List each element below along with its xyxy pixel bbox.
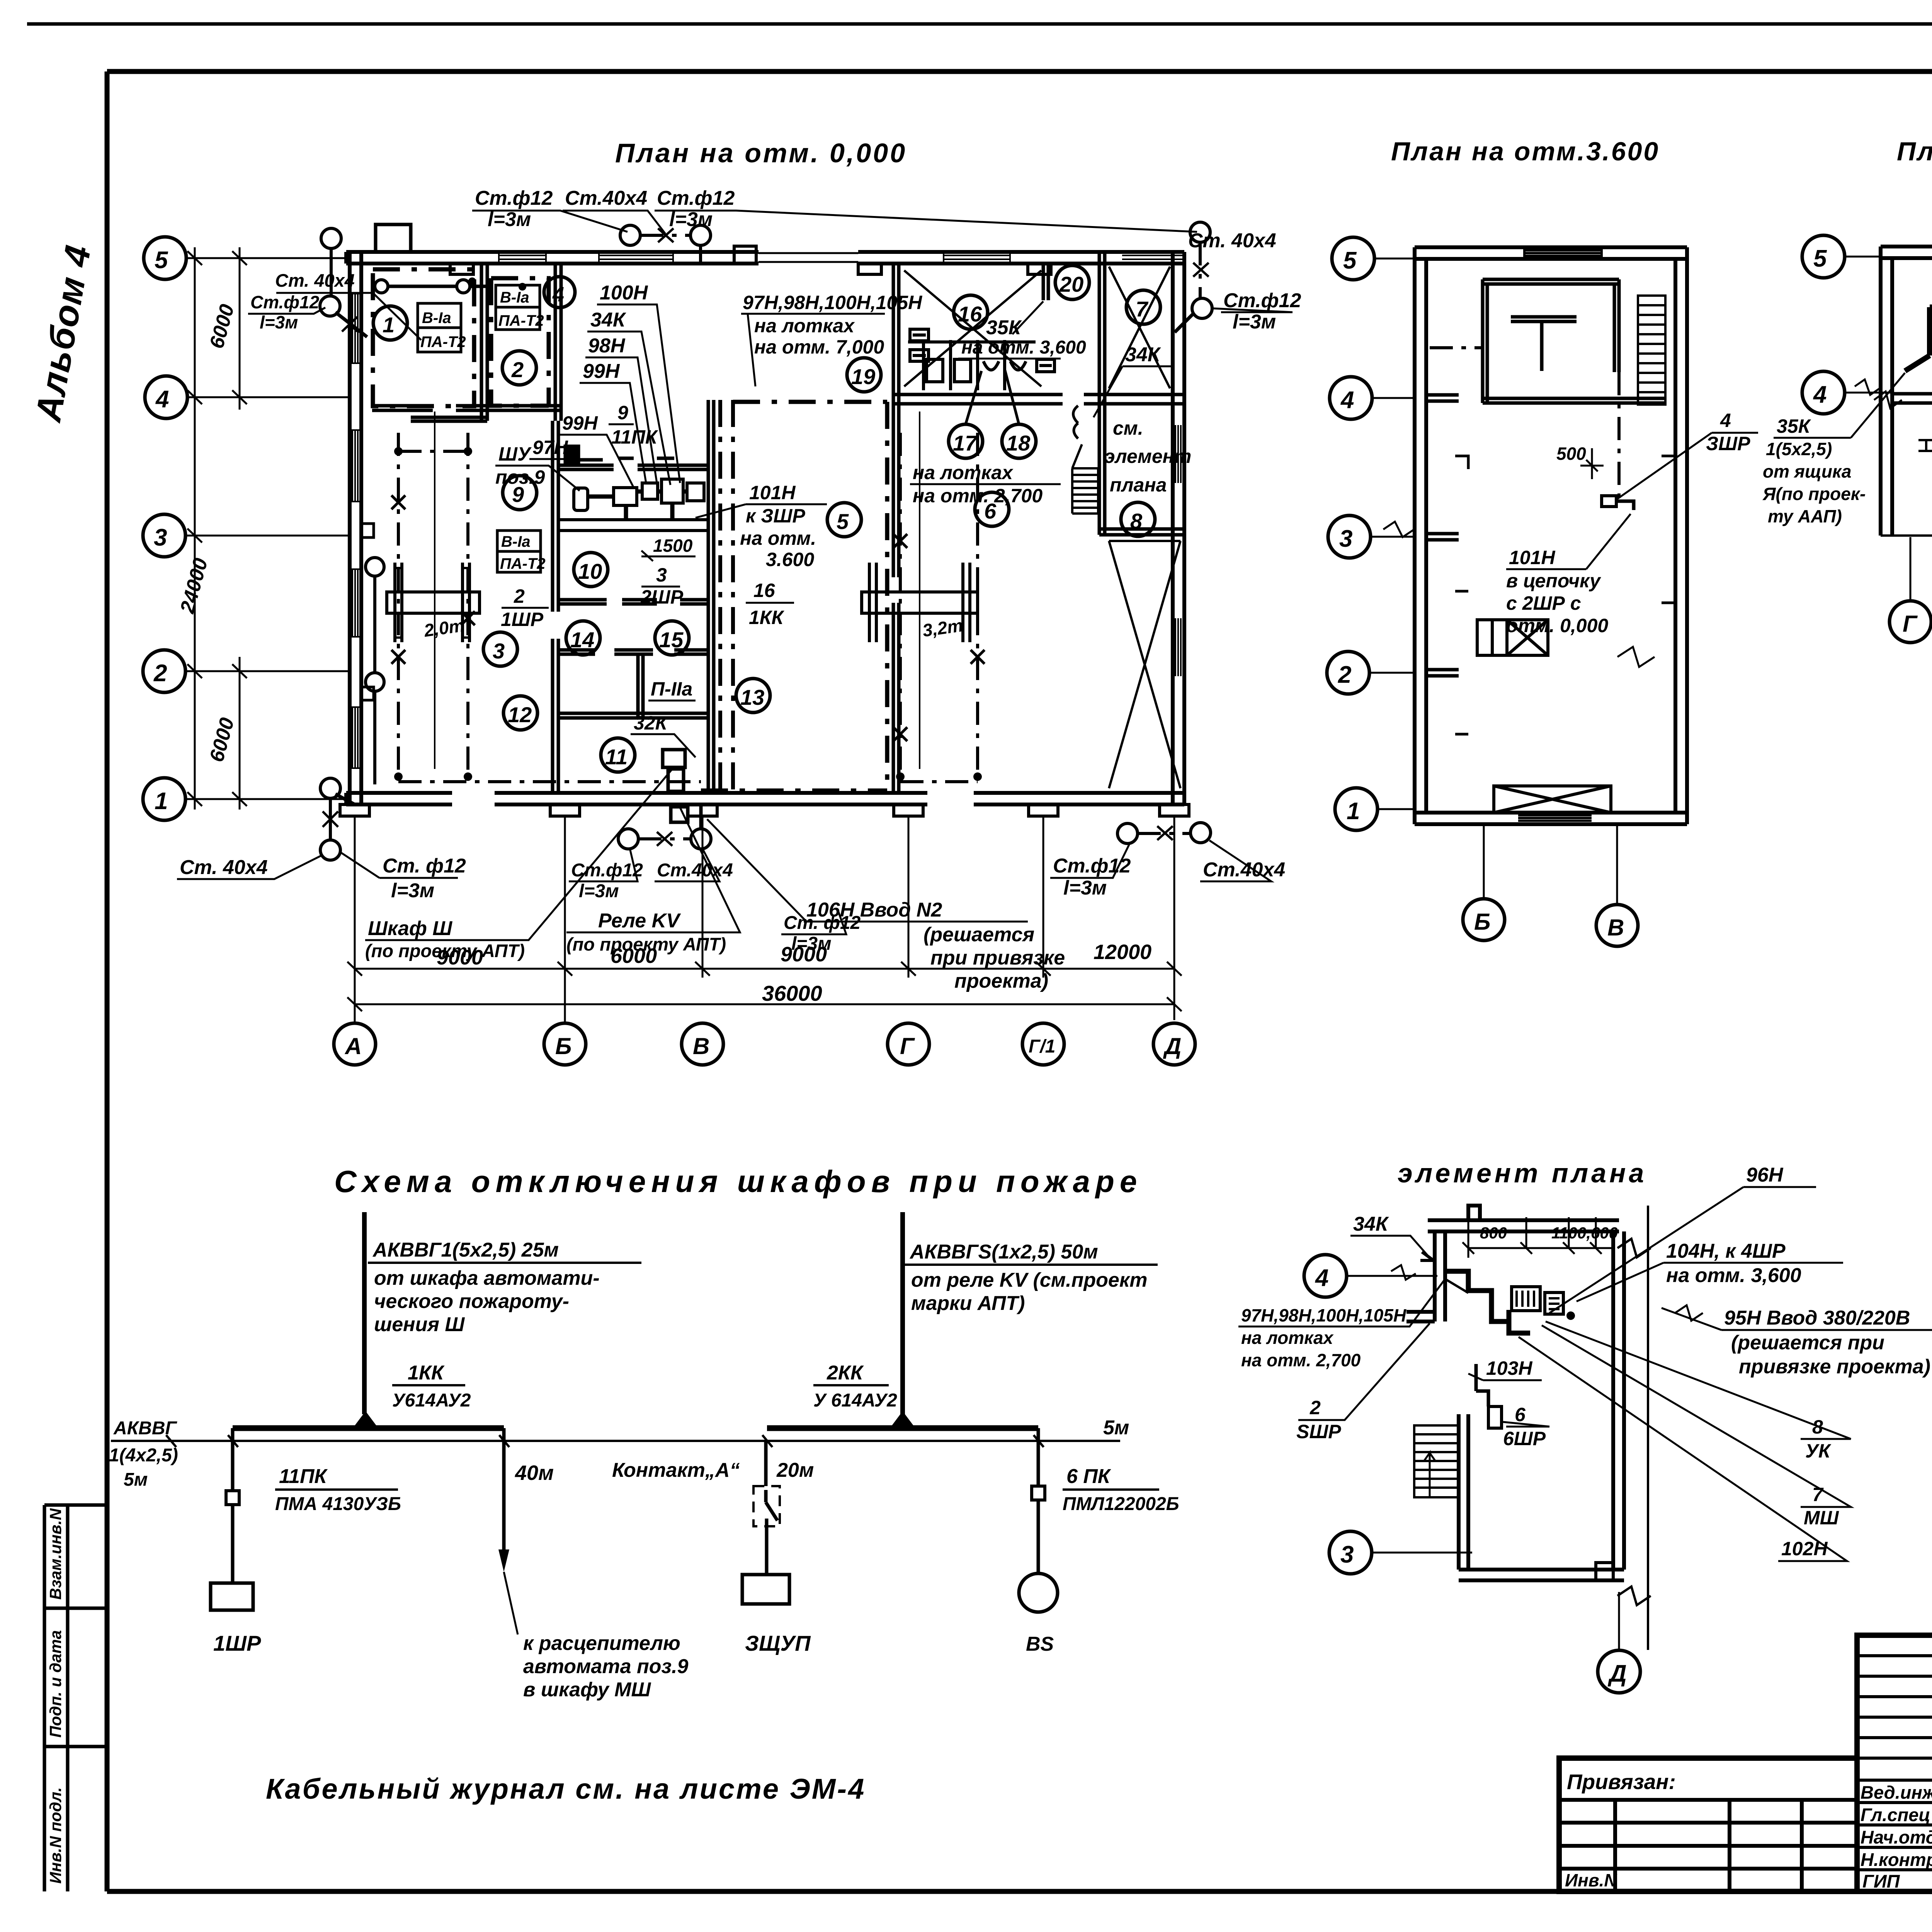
svg-text:5: 5 bbox=[1343, 247, 1357, 274]
svg-text:У614АУ2: У614АУ2 bbox=[392, 1390, 471, 1411]
box 1ШР bbox=[211, 1583, 253, 1610]
circle 17 bbox=[949, 424, 983, 458]
circle 20 bbox=[1055, 265, 1089, 299]
svg-text:АКВВГ1(5х2,5) 25м: АКВВГ1(5х2,5) 25м bbox=[372, 1239, 559, 1261]
svg-text:Контакт„А“: Контакт„А“ bbox=[612, 1459, 740, 1481]
svg-text:40м: 40м bbox=[515, 1461, 554, 1485]
svg-text:П-IIа: П-IIа bbox=[651, 678, 692, 700]
plan2 axis circle 2 bbox=[1327, 651, 1369, 694]
svg-text:20: 20 bbox=[1059, 272, 1083, 296]
svg-text:l=3м: l=3м bbox=[260, 312, 298, 332]
svg-text:Д: Д bbox=[1163, 1033, 1181, 1059]
svg-text:1: 1 bbox=[1347, 798, 1360, 825]
svg-text:ШУ: ШУ bbox=[498, 443, 532, 465]
svg-text:BS: BS bbox=[1026, 1633, 1054, 1655]
plan2 bottom window bbox=[1518, 815, 1592, 821]
svg-text:ПМА 4130УЗБ: ПМА 4130УЗБ bbox=[275, 1494, 401, 1514]
circle 19 bbox=[847, 358, 881, 392]
svg-text:автомата поз.9: автомата поз.9 bbox=[523, 1655, 688, 1678]
interior walls bbox=[372, 252, 1184, 793]
svg-text:Гл.спец: Гл.спец bbox=[1861, 1804, 1930, 1825]
sheet trim line top bbox=[27, 22, 1932, 26]
circle 8 bbox=[1121, 502, 1155, 536]
wall-mounted devices row on wall 9|10 bbox=[565, 446, 674, 462]
svg-text:35К: 35К bbox=[986, 316, 1022, 339]
svg-text:95Н Ввод 380/220В: 95Н Ввод 380/220В bbox=[1724, 1307, 1910, 1329]
element dim line bbox=[1463, 1213, 1613, 1258]
svg-text:Ст. 40х4: Ст. 40х4 bbox=[1188, 230, 1276, 252]
wall 10|14,15 bbox=[558, 600, 708, 604]
svg-text:l=3м: l=3м bbox=[1233, 311, 1276, 333]
bottom device boxes (ШУ/реле) bbox=[663, 750, 688, 822]
svg-text:3: 3 bbox=[154, 524, 167, 551]
circle 6 bbox=[975, 492, 1009, 526]
top wall pilasters bbox=[450, 246, 1051, 274]
svg-text:Г: Г bbox=[1903, 611, 1918, 637]
svg-text:Д: Д bbox=[1607, 1660, 1627, 1687]
svg-text:3: 3 bbox=[493, 639, 505, 663]
circle 3 bbox=[483, 632, 517, 666]
plan3 axis circle 5 bbox=[1802, 235, 1845, 278]
svg-text:Г: Г bbox=[900, 1033, 915, 1059]
svg-text:13: 13 bbox=[740, 685, 764, 709]
класс box room3 bbox=[497, 531, 541, 572]
svg-text:1ШР: 1ШР bbox=[501, 609, 544, 630]
svg-text:Н.контр.: Н.контр. bbox=[1861, 1849, 1932, 1870]
crane runway axis room6 bbox=[919, 412, 920, 769]
plan3 bottom axis circles bbox=[1889, 601, 1931, 643]
svg-text:на отм.: на отм. bbox=[740, 527, 816, 549]
plan2 bottom block bbox=[1494, 786, 1611, 813]
svg-text:15: 15 bbox=[659, 628, 684, 652]
svg-text:ПА-Т2: ПА-Т2 bbox=[420, 333, 466, 350]
svg-text:Ст. 40х4: Ст. 40х4 bbox=[180, 856, 268, 879]
plan3 bottom break line bbox=[1881, 522, 1932, 548]
ground electrodes top-right bbox=[1190, 222, 1210, 242]
svg-text:Я(по проек-: Я(по проек- bbox=[1762, 484, 1866, 504]
svg-text:17: 17 bbox=[953, 431, 978, 455]
privyazan box bbox=[1559, 1758, 1857, 1891]
room1 dashed boundary bbox=[373, 269, 887, 791]
svg-text:1КК: 1КК bbox=[408, 1362, 445, 1384]
bell BS bbox=[1019, 1573, 1058, 1612]
svg-text:2: 2 bbox=[153, 660, 167, 687]
svg-text:на лотках: на лотках bbox=[913, 462, 1014, 483]
bus 2 bbox=[767, 1425, 1038, 1431]
svg-text:103Н: 103Н bbox=[1486, 1357, 1532, 1379]
room number circle 1 bbox=[373, 306, 407, 340]
element stair bbox=[1414, 1425, 1458, 1497]
svg-text:5: 5 bbox=[155, 247, 168, 274]
axis circle 3 bbox=[143, 514, 185, 557]
plan3 dotted band bbox=[1918, 440, 1932, 451]
svg-text:В-Iа: В-Iа bbox=[422, 310, 451, 327]
bottom-left auxiliary column table bbox=[44, 1505, 107, 1891]
svg-text:см.: см. bbox=[1113, 417, 1143, 439]
svg-text:на отм. 7,000: на отм. 7,000 bbox=[754, 336, 884, 358]
svg-text:МШ: МШ bbox=[1804, 1507, 1839, 1529]
svg-text:на отм. 2,700: на отм. 2,700 bbox=[913, 485, 1043, 507]
svg-text:102Н: 102Н bbox=[1781, 1538, 1828, 1560]
svg-text:УК: УК bbox=[1805, 1440, 1832, 1462]
svg-text:ту ААП): ту ААП) bbox=[1768, 506, 1842, 526]
plan2 axis circle 5 bbox=[1332, 237, 1374, 280]
svg-text:Ст.40х4: Ст.40х4 bbox=[565, 187, 647, 209]
svg-text:План на отм.3.600: План на отм.3.600 bbox=[1391, 137, 1660, 166]
bottom wall pilasters bbox=[340, 804, 1189, 816]
circle 11 bbox=[601, 738, 635, 772]
crossing ticks bbox=[166, 1435, 1044, 1447]
svg-text:SШР: SШР bbox=[1296, 1421, 1341, 1442]
ground electrodes bottom-left bbox=[320, 778, 340, 798]
svg-text:В-Iа: В-Iа bbox=[501, 533, 531, 550]
bottom dimension extension lines bbox=[347, 816, 1182, 1023]
vent bump on top wall bbox=[376, 224, 411, 252]
plan2 device bbox=[1602, 496, 1616, 507]
svg-text:l=3м: l=3м bbox=[579, 881, 619, 901]
element lower box bbox=[1596, 1563, 1613, 1580]
svg-text:АКВВГS(1х2,5) 50м: АКВВГS(1х2,5) 50м bbox=[909, 1241, 1098, 1263]
plan2 axis circle 1 bbox=[1335, 788, 1378, 830]
svg-text:5: 5 bbox=[1813, 245, 1827, 272]
svg-text:В-Iа: В-Iа bbox=[500, 289, 529, 306]
circle 18 bbox=[1002, 424, 1036, 458]
svg-text:Взам.инв.N: Взам.инв.N bbox=[46, 1508, 65, 1600]
svg-text:У 614АУ2: У 614АУ2 bbox=[813, 1390, 897, 1411]
svg-text:96Н: 96Н bbox=[1746, 1164, 1784, 1186]
svg-text:1: 1 bbox=[155, 788, 168, 815]
svg-text:100Н: 100Н bbox=[600, 282, 648, 304]
svg-text:шения Ш: шения Ш bbox=[374, 1313, 465, 1336]
svg-text:6 ПК: 6 ПК bbox=[1066, 1465, 1111, 1488]
svg-text:2ШР: 2ШР bbox=[640, 586, 684, 608]
svg-text:16: 16 bbox=[753, 580, 776, 601]
svg-text:Привязан:: Привязан: bbox=[1567, 1770, 1676, 1794]
svg-text:99Н: 99Н bbox=[562, 412, 598, 434]
plan2 vent room walls bbox=[1483, 279, 1665, 403]
svg-text:ГИП: ГИП bbox=[1862, 1871, 1900, 1891]
element axis circle Д bbox=[1598, 1650, 1640, 1693]
svg-text:Инв.N: Инв.N bbox=[1565, 1870, 1617, 1890]
drop with arrow to МШ bbox=[502, 1428, 506, 1549]
axis leader lines bbox=[185, 247, 350, 810]
svg-text:1: 1 bbox=[383, 313, 395, 337]
svg-text:на лотках: на лотках bbox=[754, 315, 855, 337]
wall 14,15|12,13 bbox=[558, 650, 708, 654]
wall 12,13|11 bbox=[558, 713, 708, 718]
axis circle 2 bbox=[143, 650, 185, 692]
svg-text:проекта): проекта) bbox=[954, 970, 1048, 992]
svg-text:План на отм. 3.600: План на отм. 3.600 bbox=[1897, 137, 1932, 166]
plan3 cable thick polyline bbox=[1905, 274, 1932, 371]
wall room2|4area bbox=[555, 264, 561, 421]
plan2 exterior walls bbox=[1415, 247, 1687, 824]
sanitary stalls room 19 bbox=[908, 329, 1054, 390]
svg-text:Ст. 40х4: Ст. 40х4 bbox=[275, 270, 355, 291]
distribution line bbox=[111, 1440, 1120, 1442]
svg-text:5м: 5м bbox=[1103, 1417, 1129, 1439]
svg-text:11: 11 bbox=[605, 745, 628, 769]
svg-text:ческого пожароту-: ческого пожароту- bbox=[374, 1290, 569, 1313]
svg-text:101Н: 101Н bbox=[749, 482, 796, 503]
crane bridge room6 bbox=[862, 563, 978, 642]
svg-text:Кабельный журнал см. на лист: Кабельный журнал см. на листе ЭМ-4 bbox=[266, 1773, 866, 1805]
svg-text:на отм. 3,600: на отм. 3,600 bbox=[961, 337, 1086, 358]
svg-text:1500: 1500 bbox=[653, 536, 693, 556]
cluster right wall bbox=[708, 400, 714, 793]
connection triangle 2КК bbox=[890, 1411, 915, 1428]
connection triangle 1КК bbox=[353, 1411, 378, 1428]
axis circle 1 bbox=[143, 778, 185, 820]
cable trunk double dash-dot bbox=[720, 400, 733, 791]
bus 1 bbox=[233, 1425, 504, 1431]
circle 15 bbox=[655, 621, 689, 655]
element door arc bbox=[1445, 1279, 1468, 1293]
lamp circles room1 bbox=[375, 280, 388, 293]
svg-text:АКВВГ: АКВВГ bbox=[113, 1418, 178, 1439]
svg-text:Ст.ф12: Ст.ф12 bbox=[250, 292, 320, 312]
element break marks bbox=[1617, 1239, 1651, 1605]
svg-text:с 2ШР с: с 2ШР с bbox=[1506, 592, 1581, 614]
rooms19/7 bottom wall bbox=[893, 395, 1184, 404]
svg-text:А: А bbox=[344, 1033, 362, 1059]
svg-text:34К: 34К bbox=[590, 309, 626, 331]
feeder 2 from relay KV bbox=[900, 1212, 905, 1414]
drop to BS bbox=[1037, 1428, 1040, 1486]
svg-text:97Н,98Н,100Н,105Н: 97Н,98Н,100Н,105Н bbox=[1241, 1305, 1406, 1325]
svg-text:2: 2 bbox=[514, 585, 525, 607]
circle 13 bbox=[736, 679, 770, 713]
svg-text:на отм. 2,700: на отм. 2,700 bbox=[1241, 1350, 1361, 1370]
svg-text:ПА-Т2: ПА-Т2 bbox=[500, 555, 546, 572]
svg-text:2КК: 2КК bbox=[827, 1362, 864, 1384]
svg-text:3.600: 3.600 bbox=[766, 549, 814, 570]
svg-text:1(5х2,5): 1(5х2,5) bbox=[1766, 439, 1832, 459]
svg-text:Шкаф Ш: Шкаф Ш bbox=[368, 917, 452, 940]
room number circle 2 bbox=[502, 351, 536, 385]
svg-text:20м: 20м bbox=[776, 1459, 814, 1481]
svg-text:101Н: 101Н bbox=[1509, 547, 1555, 568]
svg-text:36000: 36000 bbox=[762, 981, 822, 1005]
svg-text:500: 500 bbox=[1556, 444, 1586, 464]
wall axis4 under rooms 1-2 bbox=[372, 406, 561, 410]
bottom axis circles bbox=[334, 1023, 376, 1065]
svg-text:104Н, к 4ШР: 104Н, к 4ШР bbox=[1666, 1240, 1786, 1262]
stair room8 area bbox=[1072, 444, 1098, 514]
cross bracing bottom right bbox=[1109, 541, 1180, 788]
position circle 4 bbox=[544, 277, 575, 308]
wall 12|13 bbox=[638, 654, 643, 717]
svg-text:l=3м: l=3м bbox=[669, 208, 713, 231]
svg-text:В: В bbox=[693, 1033, 709, 1059]
svg-text:от шкафа автомати-: от шкафа автомати- bbox=[374, 1267, 600, 1289]
svg-text:97Н: 97Н bbox=[532, 437, 568, 458]
circle 9 bbox=[503, 476, 537, 510]
svg-text:ПМЛ122002Б: ПМЛ122002Б bbox=[1063, 1494, 1179, 1514]
svg-text:l=3м: l=3м bbox=[1063, 877, 1107, 899]
feeder 1 from fire cabinet bbox=[362, 1212, 367, 1414]
svg-text:18: 18 bbox=[1006, 431, 1031, 455]
long wall room3|cluster bbox=[553, 421, 558, 793]
plan2 small marks bbox=[1455, 456, 1675, 734]
svg-text:Вед.инж.: Вед.инж. bbox=[1861, 1782, 1932, 1803]
plan2 left wall stubs bbox=[1426, 395, 1459, 676]
plan2 top window bbox=[1524, 247, 1602, 259]
left wall stubs bbox=[361, 524, 374, 537]
svg-text:9000: 9000 bbox=[437, 946, 483, 969]
plan3 axis circle 4 bbox=[1802, 371, 1845, 414]
svg-text:от ящика: от ящика bbox=[1763, 461, 1851, 481]
bottom exterior wall bbox=[346, 793, 1184, 804]
svg-text:марки АПТ): марки АПТ) bbox=[911, 1292, 1025, 1315]
ground electrodes top-left bbox=[321, 228, 341, 248]
svg-text:2: 2 bbox=[511, 357, 524, 382]
svg-text:11ПК: 11ПК bbox=[279, 1465, 328, 1488]
svg-text:4: 4 bbox=[1315, 1265, 1328, 1291]
box 3ЩУП bbox=[742, 1575, 789, 1604]
wall rooms1|2 bbox=[481, 264, 487, 421]
svg-text:3: 3 bbox=[1339, 526, 1352, 552]
svg-text:5: 5 bbox=[837, 509, 849, 534]
svg-text:В: В bbox=[1607, 915, 1624, 940]
element axis circle 4 bbox=[1304, 1255, 1347, 1297]
svg-text:элемент: элемент bbox=[1104, 446, 1191, 467]
svg-text:32К: 32К bbox=[634, 712, 668, 734]
wall 16|20 bbox=[1043, 262, 1048, 300]
svg-text:Б: Б bbox=[1474, 909, 1490, 935]
svg-text:6ШР: 6ШР bbox=[1503, 1428, 1546, 1449]
cross bracing room16 bbox=[904, 270, 1041, 386]
leaders 17/18 bbox=[966, 369, 1019, 424]
circle 7 bbox=[1126, 290, 1160, 324]
wall lamp rods left bbox=[366, 558, 384, 576]
svg-text:(решается: (решается bbox=[923, 923, 1034, 946]
mesh connector dashes bbox=[398, 451, 978, 782]
svg-text:Нач.отд.: Нач.отд. bbox=[1861, 1827, 1932, 1847]
top exterior wall bbox=[346, 252, 1184, 264]
svg-text:11ПК: 11ПК bbox=[611, 426, 658, 448]
svg-text:4: 4 bbox=[1813, 381, 1827, 408]
svg-text:ЗШР: ЗШР bbox=[1706, 433, 1750, 454]
circle 10 bbox=[574, 553, 608, 587]
svg-text:12000: 12000 bbox=[1094, 940, 1151, 964]
svg-text:14: 14 bbox=[570, 628, 594, 652]
svg-text:4: 4 bbox=[1340, 387, 1354, 413]
element axis circle 3 bbox=[1329, 1531, 1372, 1574]
svg-text:План на отм. 0,000: План на отм. 0,000 bbox=[615, 138, 907, 168]
svg-text:34К: 34К bbox=[1125, 344, 1161, 366]
svg-text:к ЗШР: к ЗШР bbox=[746, 505, 805, 527]
svg-text:Б: Б bbox=[555, 1033, 571, 1059]
svg-text:2: 2 bbox=[1310, 1397, 1321, 1418]
lightning mesh conductors room3 bbox=[398, 433, 978, 777]
svg-text:1КК: 1КК bbox=[749, 607, 785, 628]
svg-text:Ст.40х4: Ст.40х4 bbox=[1203, 859, 1285, 881]
element cable cluster bbox=[1445, 1271, 1530, 1333]
svg-text:l=3м: l=3м bbox=[391, 879, 434, 902]
svg-text:10: 10 bbox=[578, 559, 602, 583]
svg-text:9: 9 bbox=[617, 402, 628, 423]
svg-text:к расцепителю: к расцепителю bbox=[523, 1632, 680, 1655]
top wall windows bbox=[499, 252, 1183, 264]
svg-text:99Н: 99Н bbox=[583, 360, 620, 383]
wall left of 16 block bbox=[893, 262, 899, 793]
cross bracing room7 bbox=[1109, 267, 1170, 388]
plan2 axis circle 4 bbox=[1330, 377, 1372, 419]
circle 12 bbox=[503, 696, 537, 730]
svg-text:на отм. 3,600: на отм. 3,600 bbox=[1666, 1264, 1801, 1287]
ground electrodes bottom-middle bbox=[618, 829, 638, 849]
plan2 bottom axis circles bbox=[1463, 899, 1505, 940]
svg-text:при привязке: при привязке bbox=[930, 947, 1065, 969]
drop to 1ШР bbox=[231, 1428, 235, 1491]
circle 16 bbox=[954, 295, 988, 329]
svg-text:2: 2 bbox=[1338, 662, 1351, 688]
room9-11 cluster cable dashed риска bbox=[701, 402, 887, 791]
svg-text:6: 6 bbox=[1515, 1404, 1526, 1425]
svg-text:19: 19 bbox=[851, 364, 875, 389]
svg-text:35К: 35К bbox=[1777, 415, 1811, 437]
svg-text:1(4х2,5): 1(4х2,5) bbox=[109, 1445, 178, 1466]
svg-text:3: 3 bbox=[656, 564, 667, 586]
room8 bottom wall bbox=[1099, 529, 1184, 535]
element walls bbox=[1406, 1206, 1624, 1580]
ground electrodes bottom-right bbox=[1117, 823, 1138, 844]
left dimension lines bbox=[195, 247, 240, 810]
plan2 axis circle 3 bbox=[1328, 515, 1371, 558]
plan2 axis leaders bbox=[1369, 259, 1415, 809]
svg-text:привязке проекта): привязке проекта) bbox=[1739, 1355, 1930, 1378]
svg-text:Ст.ф12: Ст.ф12 bbox=[1223, 289, 1301, 312]
plan3 interior walls bbox=[1892, 258, 1932, 536]
svg-text:5м: 5м bbox=[124, 1469, 148, 1490]
plan3 exterior walls bbox=[1881, 247, 1932, 536]
crane bridge room3 bbox=[387, 563, 480, 642]
svg-text:34К: 34К bbox=[1353, 1213, 1389, 1235]
svg-text:97Н,98Н,100Н,105Н: 97Н,98Н,100Н,105Н bbox=[743, 292, 922, 313]
svg-text:плана: плана bbox=[1110, 474, 1167, 496]
svg-text:от реле KV (см.проект: от реле KV (см.проект bbox=[911, 1269, 1147, 1291]
svg-text:поз.9: поз.9 bbox=[495, 466, 545, 488]
svg-text:Реле KV: Реле KV bbox=[598, 910, 681, 932]
svg-text:в шкафу МШ: в шкафу МШ bbox=[523, 1679, 651, 1701]
svg-text:Ст.40х4: Ст.40х4 bbox=[657, 860, 733, 881]
svg-text:ЗЩУП: ЗЩУП bbox=[745, 1631, 811, 1655]
circle 14 bbox=[566, 621, 600, 655]
класс box room2 bbox=[496, 285, 540, 330]
circle 5 bbox=[827, 503, 861, 537]
svg-text:6000: 6000 bbox=[611, 944, 657, 968]
element device boxes bbox=[1512, 1287, 1540, 1311]
axis circle 5 bbox=[144, 237, 186, 279]
svg-text:Г/1: Г/1 bbox=[1029, 1036, 1056, 1057]
svg-text:Подп. и дата: Подп. и дата bbox=[46, 1630, 65, 1738]
svg-text:9000: 9000 bbox=[781, 943, 827, 966]
wall 20|7 and room8 left bbox=[1099, 252, 1105, 535]
svg-text:(решается при: (решается при bbox=[1731, 1332, 1884, 1354]
contact switch bbox=[764, 1441, 768, 1486]
left exterior wall bbox=[350, 252, 361, 804]
svg-text:106Н Ввод N2: 106Н Ввод N2 bbox=[806, 899, 942, 921]
svg-text:4: 4 bbox=[552, 283, 564, 306]
svg-text:l=3м: l=3м bbox=[488, 208, 531, 231]
svg-text:98Н: 98Н bbox=[588, 335, 626, 357]
svg-text:8: 8 bbox=[1130, 509, 1143, 533]
svg-text:ПА-Т2: ПА-Т2 bbox=[498, 312, 544, 329]
svg-text:1100,600: 1100,600 bbox=[1551, 1224, 1618, 1242]
svg-text:Ст.ф12: Ст.ф12 bbox=[657, 187, 735, 209]
left wall windows bbox=[350, 294, 361, 768]
